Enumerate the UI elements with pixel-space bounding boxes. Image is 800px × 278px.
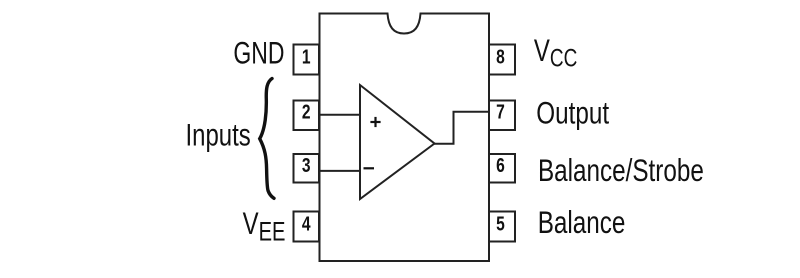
svg-text:4: 4	[302, 213, 311, 235]
wire pin2 to op-amp noninverting input	[318, 114, 360, 116]
label Inputs (pins 2-3)	[186, 117, 251, 152]
svg-text:3: 3	[302, 154, 311, 176]
pin 6 box	[489, 154, 515, 183]
svg-text:Output: Output	[536, 96, 609, 131]
svg-text:GND: GND	[233, 35, 284, 70]
pin 3 number	[302, 154, 311, 176]
pin 4 number	[302, 213, 311, 235]
svg-text:VEE: VEE	[243, 206, 286, 246]
pin 3 box	[294, 154, 320, 183]
wire pin3 to op-amp inverting input	[318, 170, 360, 172]
label Output (pin 7)	[536, 96, 609, 131]
pin 7 number	[496, 101, 505, 123]
svg-text:Balance: Balance	[538, 205, 626, 240]
svg-text:1: 1	[302, 46, 311, 68]
pin 8 box	[489, 45, 515, 75]
pin 2 number	[302, 101, 311, 123]
svg-text:6: 6	[496, 154, 505, 176]
pin 8 number	[496, 46, 505, 68]
svg-text:VCC: VCC	[534, 33, 577, 72]
label Balance (pin 5)	[538, 205, 626, 240]
pin 4 box	[294, 212, 320, 242]
pin 2 box	[294, 101, 320, 131]
label VCC (pin 8)	[534, 33, 577, 72]
brace grouping pins 2-3 (Inputs)	[260, 79, 274, 199]
op-amp plus (noninverting) marker	[370, 117, 380, 127]
op-amp minus (inverting) marker	[364, 167, 375, 169]
svg-text:7: 7	[496, 101, 505, 123]
svg-text:5: 5	[496, 213, 505, 235]
label Balance/Strobe (pin 6)	[538, 153, 704, 188]
pin 5 box	[489, 212, 515, 242]
svg-text:2: 2	[302, 101, 311, 123]
svg-text:Inputs: Inputs	[186, 117, 251, 152]
pin 7 box	[489, 101, 515, 131]
svg-text:Balance/Strobe: Balance/Strobe	[538, 153, 704, 188]
pin 6 number	[496, 154, 505, 176]
pin 1 box	[294, 45, 320, 75]
op-amp U1 package body (8-pin DIP outline with index notch)	[320, 14, 490, 262]
pin 5 number	[496, 213, 505, 235]
wire op-amp output to pin7 (stepped)	[433, 112, 489, 144]
svg-text:8: 8	[496, 46, 505, 68]
label VEE (pin 4)	[243, 206, 286, 246]
pin 1 number	[302, 46, 311, 68]
op-amp U1 triangle symbol	[360, 85, 435, 199]
label GND (pin 1)	[233, 35, 284, 70]
